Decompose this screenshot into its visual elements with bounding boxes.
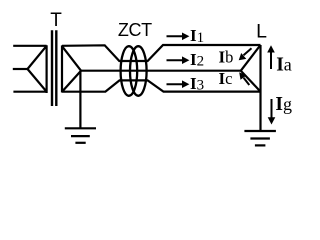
current arrow Ic [239,72,249,85]
wire phase 2 conductor [81,70,241,72]
svg-text:Ic: Ic [219,69,233,88]
svg-text:I2: I2 [190,50,204,70]
transformer T secondary winding [62,45,81,92]
transformer T primary winding [28,45,47,93]
wire phase 3 conductor [62,80,261,91]
svg-text:T: T [50,10,62,31]
ZCT toroid [121,46,147,96]
svg-text:I3: I3 [190,74,204,94]
node load junction fan-in [241,45,261,92]
wire supply phase 2 [13,68,28,70]
wire supply phase 1 [13,45,46,47]
wire load line L [259,45,261,130]
svg-text:Ia: Ia [276,55,292,76]
transformer T core [52,30,56,106]
wire supply phase 3 [13,91,46,93]
svg-text:ZCT: ZCT [118,20,152,40]
wire neutral to ground [79,71,81,128]
svg-text:I1: I1 [190,26,204,46]
current arrow Ia [267,45,275,69]
svg-text:Ib: Ib [219,48,234,67]
svg-text:L: L [256,21,267,43]
ground left [65,128,96,143]
current arrow I2 [167,56,190,64]
current arrow I3 [167,80,190,88]
current arrow Ib [239,48,252,60]
svg-text:Ig: Ig [275,94,292,115]
current arrow I1 [167,33,190,41]
wire phase 1 conductor [62,45,261,61]
current arrow Ig [268,99,276,125]
ground right [244,131,276,145]
